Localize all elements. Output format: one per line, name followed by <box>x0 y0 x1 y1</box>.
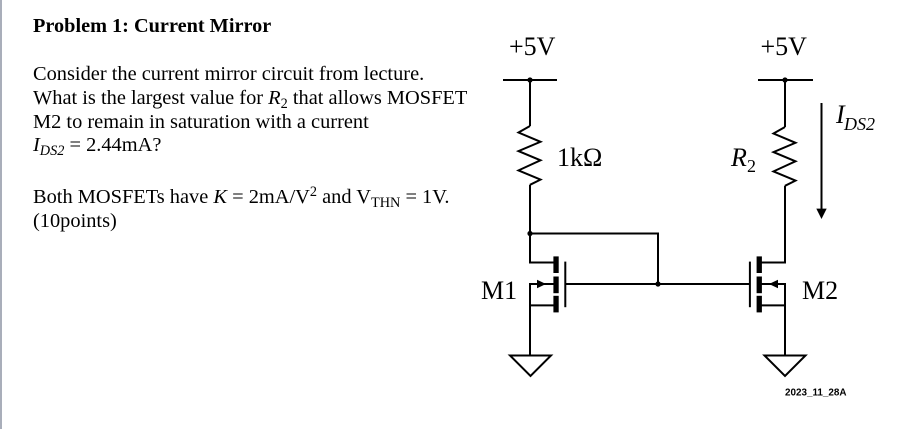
junction dot gate net node <box>655 281 660 286</box>
transistor M1 channel segments <box>553 256 558 273</box>
junction dot VDD left <box>527 77 532 82</box>
node VDD left: +5V rail <box>503 79 557 81</box>
wire M2 body/source to ground <box>762 284 786 355</box>
current arrow IDS2 head <box>816 209 826 219</box>
ground symbol right <box>765 356 806 377</box>
wire M1 body/source to ground <box>530 284 554 355</box>
svg-text:+5V: +5V <box>509 32 556 61</box>
junction dot VDD right <box>782 77 787 82</box>
wire R2 bottom to M2 drain <box>762 186 786 263</box>
node VDD right: +5V rail <box>758 79 813 81</box>
svg-text:1kΩ: 1kΩ <box>557 143 602 172</box>
transistor M2 gate bar <box>749 262 751 308</box>
resistor R2 zigzag <box>774 127 796 186</box>
left window edge line <box>0 0 2 429</box>
paragraph 1 <box>33 64 424 84</box>
transistor M2 channel segments <box>757 256 762 273</box>
resistor R1 1k zigzag <box>519 126 541 185</box>
transistor M1 gate bar <box>564 262 566 308</box>
svg-text:+5V: +5V <box>761 32 808 61</box>
paragraph 2 <box>33 187 449 209</box>
wire drain node to gate net <box>530 234 658 285</box>
M1 body arrow <box>537 280 546 288</box>
svg-text:R: R <box>730 143 747 172</box>
ground symbol left <box>510 356 551 377</box>
junction dot drain M1 node <box>527 231 532 236</box>
svg-text:M1: M1 <box>481 276 517 305</box>
svg-text:DS2: DS2 <box>843 114 875 134</box>
wire rail to R1 top <box>529 80 531 126</box>
wire R1 bottom to M1 drain <box>530 185 554 263</box>
svg-text:2: 2 <box>747 156 756 176</box>
svg-text:2023_11_28A: 2023_11_28A <box>785 388 847 399</box>
title <box>33 16 271 36</box>
current arrow IDS2 line <box>821 103 823 209</box>
M2 body arrow <box>769 280 778 288</box>
wire M1 source stub <box>530 304 554 306</box>
wire rail to R2 top <box>784 80 786 127</box>
wire M2 source stub <box>762 304 786 306</box>
wire gate M1 to gate M2 <box>566 283 749 285</box>
svg-text:M2: M2 <box>802 276 838 305</box>
